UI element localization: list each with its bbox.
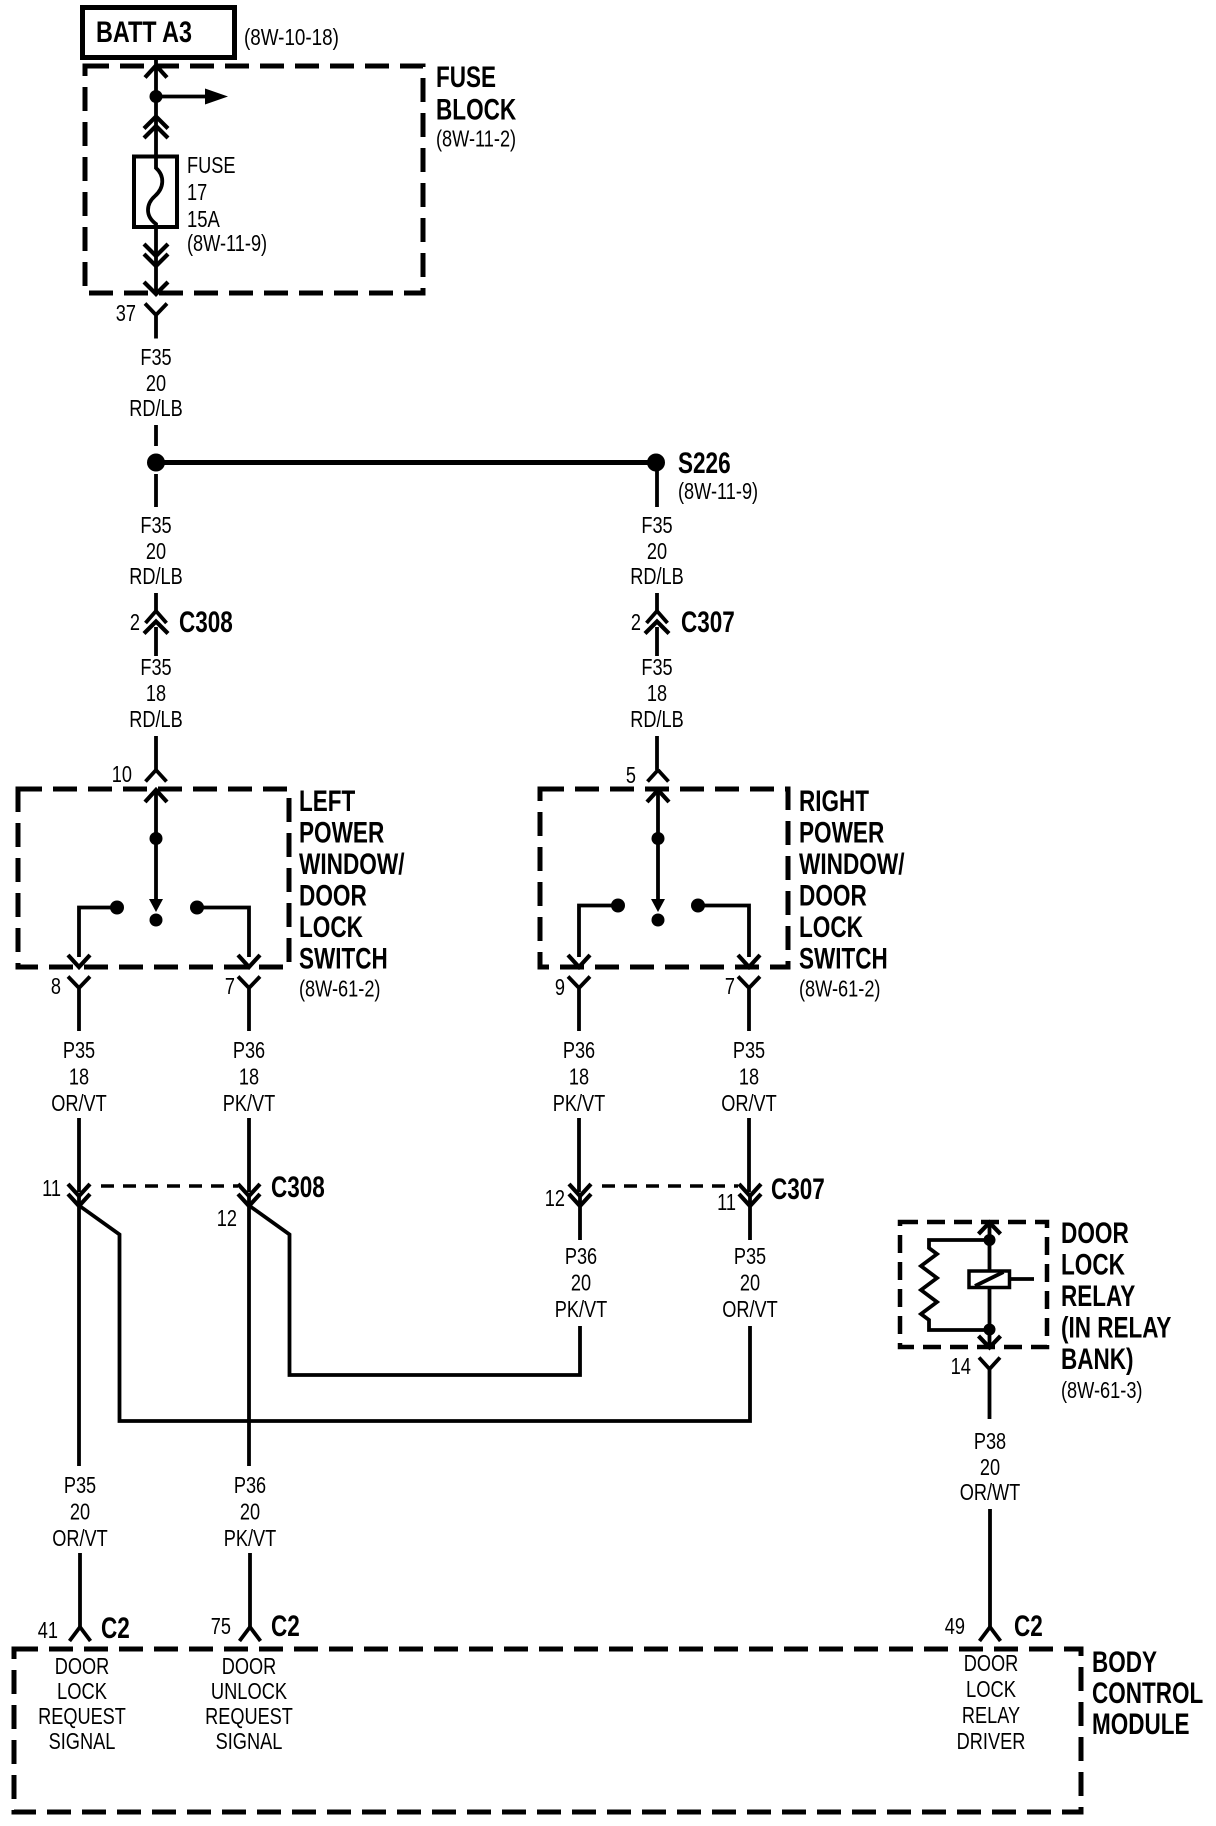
svg-text:DOOR: DOOR [964,1650,1019,1676]
svg-text:49: 49 [945,1613,965,1639]
arrowhead down at pin 7 left [238,955,260,967]
svg-text:DOOR: DOOR [299,880,367,913]
wire label P35 20 OR/VT lower left [52,1472,108,1551]
svg-text:P36: P36 [233,1037,265,1063]
svg-text:18: 18 [146,680,166,706]
left power window/door lock switch box [18,789,289,967]
svg-text:(8W-11-9): (8W-11-9) [187,230,267,256]
svg-text:5: 5 [626,762,636,788]
svg-text:18: 18 [569,1064,589,1090]
svg-text:C307: C307 [681,606,735,639]
arrowhead up at right switch entry [647,790,669,802]
svg-text:DOOR: DOOR [55,1653,110,1679]
svg-text:20: 20 [647,538,667,564]
svg-text:C2: C2 [101,1612,130,1645]
svg-text:(8W-61-3): (8W-61-3) [1061,1377,1143,1403]
wire label F35 18 RD/LB left [129,654,183,732]
svg-text:20: 20 [146,370,166,396]
wire below S226 right [655,471,659,507]
svg-text:9: 9 [555,974,565,1000]
fuse F17 15A [134,157,177,228]
wire below C308 [154,627,158,656]
svg-text:C307: C307 [771,1173,825,1206]
svg-text:F35: F35 [140,512,171,538]
wire to splice [154,425,158,446]
svg-text:7: 7 [725,973,735,999]
node relay top junction [984,1234,996,1246]
svg-text:POWER: POWER [799,817,885,850]
svg-text:SWITCH: SWITCH [799,943,888,976]
svg-text:DOOR: DOOR [799,880,867,913]
arrowhead up at relay top [979,1223,1001,1235]
svg-text:12: 12 [545,1185,565,1211]
svg-text:SIGNAL: SIGNAL [49,1728,116,1754]
svg-text:RELAY: RELAY [1061,1280,1135,1313]
connector Y pin 7 right [738,977,760,1032]
svg-text:OR/WT: OR/WT [960,1479,1021,1505]
svg-text:11: 11 [717,1189,736,1215]
svg-text:12: 12 [217,1205,237,1231]
connector pin 5 [648,770,669,782]
wire to BCM pin 75 [248,1553,252,1627]
wire switch common left [154,790,158,899]
svg-text:DOOR: DOOR [222,1653,277,1679]
wire switch common right [656,790,660,899]
connector C308 pin 12 chevrons [238,1184,260,1206]
svg-text:BANK): BANK) [1061,1343,1134,1376]
svg-text:(IN RELAY: (IN RELAY [1061,1312,1171,1345]
svg-text:RD/LB: RD/LB [630,706,684,732]
wire to C307 [655,593,659,611]
svg-text:BATT A3: BATT A3 [96,16,192,49]
connector C308 pin 11 chevrons [68,1184,90,1206]
wire C308 pin 12 down to BCM [247,1196,251,1466]
svg-text:8: 8 [51,973,61,999]
svg-text:37: 37 [116,300,136,326]
dashed connector line C308 [101,1184,238,1188]
connector pin 49 [980,1627,1001,1641]
arrowhead down at pin 8 [68,955,90,967]
svg-text:P36: P36 [563,1037,595,1063]
wire P36 to C308 pin 12 [247,1118,251,1192]
wire to BCM pin 41 [78,1553,82,1627]
svg-text:(8W-11-9): (8W-11-9) [678,478,758,504]
wire contact to pin 9 [579,906,618,958]
svg-text:F35: F35 [140,654,171,680]
switch wiper arrow right [651,899,665,912]
right power window/door lock switch box [540,789,788,967]
svg-text:RD/LB: RD/LB [129,395,183,421]
svg-text:LOCK: LOCK [299,911,363,944]
svg-text:P35: P35 [733,1037,765,1063]
arrowhead up at fuse block top [145,66,167,78]
svg-text:2: 2 [130,609,140,635]
connector C307 pin 12 chevrons [569,1184,591,1206]
wire label F35 18 RD/LB right [630,654,684,732]
label DOOR UNLOCK REQUEST SIGNAL [205,1653,293,1754]
node contact 9 right [611,899,625,913]
svg-text:P36: P36 [565,1243,597,1269]
svg-text:BLOCK: BLOCK [436,94,516,127]
svg-text:F35: F35 [641,512,672,538]
label DOOR LOCK RELAY (IN RELAY BANK) (8W-61-3) [1061,1217,1171,1403]
node switch common left [150,832,163,845]
label RIGHT POWER WINDOW/DOOR LOCK SWITCH [799,785,905,1002]
svg-text:C2: C2 [1014,1610,1043,1643]
svg-text:REQUEST: REQUEST [38,1703,126,1729]
wire label P35 18 OR/VT [51,1037,107,1116]
connector Y pin 37 [145,304,167,339]
wire relay vertical [988,1223,992,1348]
svg-text:18: 18 [69,1064,89,1090]
svg-text:P35: P35 [64,1472,96,1498]
svg-text:LOCK: LOCK [57,1678,108,1704]
svg-text:WINDOW/: WINDOW/ [299,848,405,881]
node wiper contact right [652,914,665,927]
connector chevrons down [144,244,168,266]
connector pin 75 [240,1627,261,1641]
wire branch pin 12 diagonal and across [249,1206,580,1376]
label DOOR LOCK REQUEST SIGNAL [38,1653,126,1754]
svg-text:P36: P36 [234,1472,266,1498]
svg-text:20: 20 [740,1270,760,1296]
arrowhead down at relay bottom [979,1336,1001,1348]
wire label P36 18 PK/VT [223,1037,276,1116]
svg-text:POWER: POWER [299,817,385,850]
svg-text:C2: C2 [271,1610,300,1643]
svg-text:LOCK: LOCK [799,911,863,944]
wire to C308 [154,593,158,611]
wire P35 right to C307 pin 11 [747,1118,751,1192]
svg-text:P35: P35 [63,1037,95,1063]
wire C307 pin 11 below [748,1196,752,1240]
wire P36 right to C307 pin 12 [577,1118,581,1192]
svg-text:11: 11 [42,1175,61,1201]
svg-text:15A: 15A [187,206,220,232]
svg-text:RD/LB: RD/LB [129,706,183,732]
node S226 [647,454,665,472]
connector Y pin 8 [68,977,90,1032]
svg-text:18: 18 [647,680,667,706]
wire label P35 18 OR/VT right [721,1037,777,1116]
svg-text:(8W-10-18): (8W-10-18) [244,24,339,50]
label FUSE 17 15A (8W-11-9) [187,152,267,256]
wire label F35 20 RD/LB left [129,512,183,589]
label S226 (8W-11-9) [678,447,758,504]
svg-text:CONTROL: CONTROL [1092,1677,1203,1710]
svg-text:18: 18 [239,1064,259,1090]
svg-text:LOCK: LOCK [1061,1249,1125,1282]
svg-text:OR/VT: OR/VT [51,1090,107,1116]
connector C307 pin 11 chevrons [739,1184,761,1206]
wire label P38 20 OR/WT [960,1428,1021,1505]
svg-text:OR/VT: OR/VT [721,1090,777,1116]
svg-text:RELAY: RELAY [962,1702,1020,1728]
svg-text:(8W-61-2): (8W-61-2) [799,976,881,1002]
svg-text:BODY: BODY [1092,1646,1157,1679]
svg-text:DOOR: DOOR [1061,1217,1129,1250]
svg-text:20: 20 [980,1454,1000,1480]
wire C308 pin 11 down to BCM [77,1196,81,1466]
door lock relay box [900,1222,1047,1347]
node contact 7 right [691,899,705,913]
label DOOR LOCK RELAY DRIVER [957,1650,1026,1754]
dashed connector line C307 [602,1184,738,1188]
arrowhead up at left switch entry [145,790,167,802]
svg-text:WINDOW/: WINDOW/ [799,848,905,881]
label LEFT POWER WINDOW/DOOR LOCK SWITCH [299,785,405,1002]
svg-text:7: 7 [225,973,235,999]
svg-text:PK/VT: PK/VT [553,1090,606,1116]
switch wiper arrow left [149,899,163,912]
svg-text:14: 14 [951,1353,972,1379]
wire to right switch [655,736,659,770]
arrowhead down at fuse block bottom [144,282,168,294]
svg-text:20: 20 [240,1499,260,1525]
svg-text:20: 20 [70,1499,90,1525]
wire below C307 [655,627,659,656]
body control module box [14,1649,1081,1812]
svg-text:18: 18 [739,1064,759,1090]
node contact 8 left [110,901,124,915]
svg-text:RD/LB: RD/LB [630,563,684,589]
node BATT A3 [83,8,235,58]
svg-text:2: 2 [631,609,641,635]
svg-text:RIGHT: RIGHT [799,785,869,818]
svg-text:OR/VT: OR/VT [722,1296,778,1322]
svg-text:UNLOCK: UNLOCK [211,1678,288,1704]
wire P35 to C308 pin 11 [77,1118,81,1192]
svg-text:LOCK: LOCK [966,1676,1017,1702]
wire from BATT A3 into fuse block [154,57,158,96]
wire branch pin 11 diagonal and across [79,1206,750,1422]
svg-text:F35: F35 [641,654,672,680]
resistor in relay [921,1240,990,1330]
wire contact to pin 8 [79,908,117,958]
svg-text:LEFT: LEFT [299,785,355,818]
wire label F35 20 RD/LB right [630,512,684,589]
wire C307 pin 12 below [578,1196,582,1240]
arrow tap to right [156,89,228,105]
svg-text:PK/VT: PK/VT [224,1525,277,1551]
svg-text:75: 75 [211,1613,231,1639]
wire dot to fuse [154,97,158,158]
connector chevrons up [144,117,168,139]
svg-text:MODULE: MODULE [1092,1708,1190,1741]
connector Y pin 9 [568,977,590,1032]
svg-text:S226: S226 [678,447,731,480]
svg-text:C308: C308 [179,606,233,639]
wire contact to pin 7 right [698,906,749,958]
svg-text:10: 10 [112,761,132,787]
node relay bottom junction [984,1324,996,1336]
wire label F35 20 RD/LB [129,344,183,421]
wire label P36 18 PK/VT right [553,1037,606,1116]
svg-text:DRIVER: DRIVER [957,1728,1026,1754]
svg-text:20: 20 [571,1270,591,1296]
node splice left [147,454,165,472]
svg-text:C308: C308 [271,1171,325,1204]
fuse block box [85,66,423,293]
svg-text:(8W-61-2): (8W-61-2) [299,976,381,1002]
connector C308 pin 2 [144,611,168,634]
connector C307 pin 2 [645,611,669,634]
svg-text:F35: F35 [140,344,171,370]
arrowhead down at pin 7 right [738,955,760,967]
wire to BCM pin 49 [988,1509,992,1627]
label FUSE BLOCK [436,61,516,152]
wire label P35 20 OR/VT [722,1243,778,1322]
connector Y pin 7 left [238,977,260,1032]
svg-text:OR/VT: OR/VT [52,1525,108,1551]
wire below splice left [154,474,158,507]
node contact 7 left [190,901,204,915]
wire label P36 20 PK/VT [555,1243,608,1322]
svg-text:PK/VT: PK/VT [555,1296,608,1322]
svg-text:(8W-11-2): (8W-11-2) [436,126,516,152]
wire splice bus to S226 [156,460,656,465]
svg-text:FUSE: FUSE [436,61,496,94]
node switch common right [652,832,665,845]
svg-text:SWITCH: SWITCH [299,943,388,976]
svg-text:RD/LB: RD/LB [129,563,183,589]
wire to left switch [154,736,158,770]
connector Y pin 14 [979,1358,1000,1420]
arrowhead down at pin 9 [568,955,590,967]
wire label P36 20 PK/VT lower left [224,1472,277,1551]
connector pin 10 [146,770,167,782]
relay coil [969,1271,1034,1288]
svg-text:17: 17 [187,179,207,205]
svg-text:REQUEST: REQUEST [205,1703,293,1729]
node wiper contact left [150,914,163,927]
svg-text:SIGNAL: SIGNAL [216,1728,283,1754]
svg-text:20: 20 [146,538,166,564]
label BODY CONTROL MODULE [1092,1646,1203,1741]
svg-text:FUSE: FUSE [187,152,236,178]
svg-text:P35: P35 [734,1243,766,1269]
wire contact to pin 7 left [197,908,249,958]
svg-text:41: 41 [38,1617,58,1643]
connector pin 41 [70,1627,91,1641]
svg-text:P38: P38 [974,1428,1006,1454]
wire fuse to exit [154,227,158,293]
node junction in fuse block [150,90,163,103]
svg-text:PK/VT: PK/VT [223,1090,276,1116]
